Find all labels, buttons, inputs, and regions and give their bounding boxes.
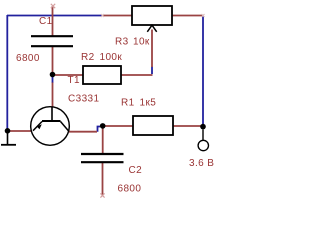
svg-text:6800: 6800 bbox=[118, 184, 142, 195]
svg-text:R3: R3 bbox=[115, 36, 129, 47]
svg-text:T1: T1 bbox=[68, 75, 81, 86]
svg-text:R1: R1 bbox=[121, 98, 135, 109]
svg-text:C2: C2 bbox=[129, 165, 143, 176]
svg-text:1к5: 1к5 bbox=[140, 98, 157, 109]
svg-text:100к: 100к bbox=[100, 52, 123, 63]
svg-text:6800: 6800 bbox=[16, 53, 40, 64]
svg-text:10к: 10к bbox=[133, 36, 150, 47]
svg-text:3.6 В: 3.6 В bbox=[189, 158, 214, 169]
svg-text:C3331: C3331 bbox=[68, 94, 100, 105]
svg-text:C1: C1 bbox=[39, 16, 53, 27]
svg-text:R2: R2 bbox=[81, 52, 95, 63]
